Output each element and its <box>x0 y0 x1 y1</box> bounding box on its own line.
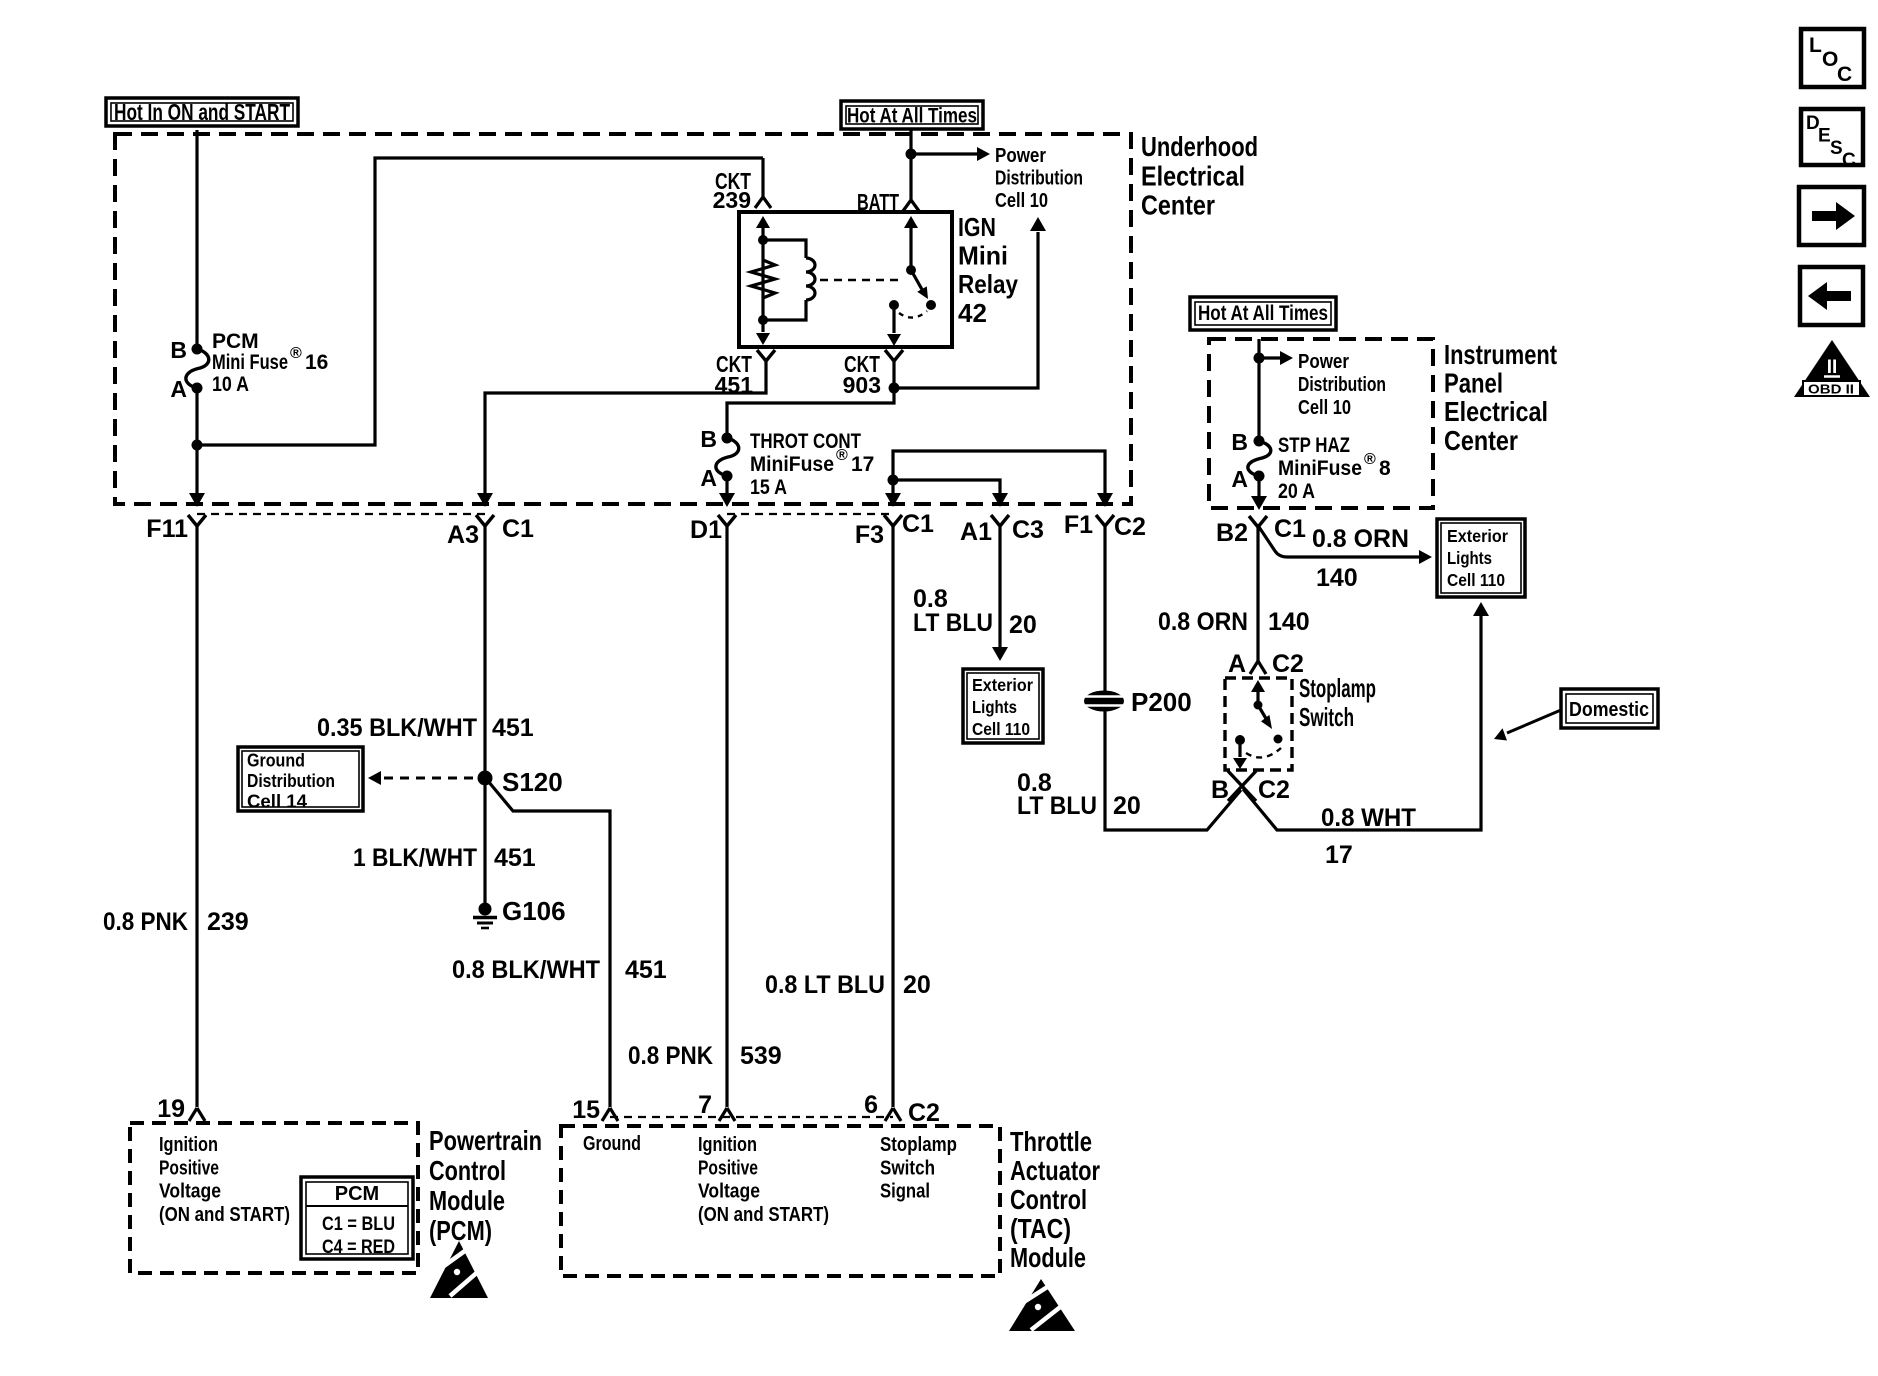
stoplamp internal: travel arc (dashed) <box>1246 748 1281 757</box>
svg-text:Mini Fuse: Mini Fuse <box>212 351 288 374</box>
relay internal: switch blade (arrow) <box>911 270 928 299</box>
svg-text:Instrument: Instrument <box>1444 339 1557 370</box>
svg-text:20 A: 20 A <box>1278 480 1315 503</box>
wire: S120 jog to 0.8 BLK/WHT drop <box>488 781 610 1107</box>
icon OBD II triangle <box>1794 340 1870 397</box>
svg-text:10 A: 10 A <box>212 373 249 396</box>
terminal label B (PCM fuse) <box>170 337 187 363</box>
svg-text:(ON and START): (ON and START) <box>698 1203 829 1226</box>
icon DESC <box>1801 109 1863 171</box>
svg-text:Relay: Relay <box>958 269 1018 299</box>
svg-text:Voltage: Voltage <box>698 1180 760 1203</box>
label "Instrument Panel Electrical Center" <box>1444 339 1557 456</box>
wire label "1 BLK/WHT | 451" <box>353 844 536 872</box>
svg-text:B: B <box>170 337 187 363</box>
svg-text:Positive: Positive <box>159 1156 219 1179</box>
svg-text:®: ® <box>836 447 848 464</box>
svg-text:(TAC): (TAC) <box>1010 1213 1071 1244</box>
switch SW: Stoplamp Switch (dashed box) <box>1225 678 1292 770</box>
pin label "Ignition Positive Voltage (ON and START)" <box>159 1133 290 1226</box>
svg-text:P200: P200 <box>1131 687 1192 717</box>
svg-text:Actuator: Actuator <box>1010 1155 1100 1186</box>
fuse THROT CONT MiniFuse 17 (15A) <box>716 433 739 482</box>
cell box "Exterior Lights Cell 110" (right) <box>1437 519 1525 597</box>
icon forward arrow <box>1799 187 1864 245</box>
svg-text:140: 140 <box>1316 564 1358 592</box>
relay internal: coil-side pin wire <box>756 216 770 320</box>
svg-text:Underhood: Underhood <box>1141 131 1258 162</box>
label "Underhood Electrical Center" <box>1141 131 1258 221</box>
svg-text:Cell 110: Cell 110 <box>972 719 1030 739</box>
wire to A1 with arrow <box>893 480 1008 507</box>
wire label "0.8 LT BLU | 20" (pin 6 drop) <box>765 971 931 999</box>
svg-text:B: B <box>1211 776 1229 804</box>
wire: A3 to S120 (0.35 BLK/WHT 451) <box>483 526 486 773</box>
wire: PCM fuse A down to junction <box>195 388 198 445</box>
svg-text:17: 17 <box>851 453 874 476</box>
svg-text:(PCM): (PCM) <box>429 1215 492 1246</box>
wire: A1 drop to Exterior Lights <box>992 526 1008 661</box>
svg-text:Ground: Ground <box>583 1132 641 1155</box>
relay internal: resistor <box>751 260 775 298</box>
label "Power Distribution Cell 10" (underhood) <box>995 145 1083 212</box>
svg-text:Control: Control <box>1010 1184 1087 1215</box>
svg-text:MiniFuse: MiniFuse <box>750 453 834 476</box>
svg-text:903: 903 <box>843 372 881 398</box>
value label "PCM Mini Fuse 16 10 A" <box>212 330 328 396</box>
svg-text:Module: Module <box>1010 1242 1086 1273</box>
label box "Domestic" <box>1561 689 1658 728</box>
wire label "0.35 BLK/WHT | 451" <box>317 714 534 742</box>
wire label "0.8 BLK/WHT | 451" <box>452 956 667 984</box>
svg-text:Ground: Ground <box>247 751 305 771</box>
relay internal: actuation dashed link <box>820 279 902 282</box>
svg-text:G106: G106 <box>502 896 566 926</box>
svg-text:0.8 PNK: 0.8 PNK <box>103 908 188 936</box>
svg-text:Stoplamp: Stoplamp <box>1299 673 1376 703</box>
svg-text:C1 = BLU: C1 = BLU <box>322 1213 395 1235</box>
svg-text:A: A <box>1228 650 1246 678</box>
label box "Hot At All Times" (underhood) <box>841 101 983 129</box>
connector pin 15 <box>572 1096 618 1124</box>
svg-text:S: S <box>1830 138 1843 159</box>
svg-text:42: 42 <box>958 298 987 328</box>
svg-text:C1: C1 <box>502 515 534 543</box>
svg-text:Cell 10: Cell 10 <box>1298 397 1351 419</box>
cell box "Ground Distribution Cell 14" <box>238 747 363 812</box>
svg-text:Lights: Lights <box>972 697 1017 717</box>
terminal label A (PCM fuse) <box>170 376 187 402</box>
svg-text:LT BLU: LT BLU <box>913 609 993 637</box>
module: Throttle Actuator Control (dashed box) <box>561 1126 1000 1276</box>
connector BATT (relay pin) <box>857 189 919 215</box>
wire: B2 down to stoplamp A (0.8 ORN 140) <box>1256 527 1259 661</box>
wire CKT 451 to A3/C1 <box>477 361 766 507</box>
cell box "Exterior Lights Cell 110" (left) <box>963 669 1043 743</box>
svg-text:0.8 LT BLU: 0.8 LT BLU <box>765 971 885 999</box>
dashed wire to Ground Distribution <box>368 771 478 785</box>
pin label "Ground" <box>583 1132 641 1155</box>
wire+arrow to Power Distribution Cell 10 (underhood) <box>911 147 990 161</box>
svg-text:539: 539 <box>740 1042 782 1070</box>
value label "THROT CONT MiniFuse 17 15 A" <box>750 430 874 499</box>
label box "Hot At All Times" (IP) <box>1190 297 1336 330</box>
svg-text:C2: C2 <box>1114 513 1146 541</box>
svg-text:0.8 WHT: 0.8 WHT <box>1321 804 1416 832</box>
label "Stoplamp Switch" <box>1299 673 1376 732</box>
value label "STP HAZ MiniFuse 8 20 A" <box>1278 434 1391 503</box>
relay internal: coil L1 <box>763 240 815 320</box>
svg-text:1 BLK/WHT: 1 BLK/WHT <box>353 844 477 872</box>
wire CKT 903 to THROT CONT fuse <box>727 388 894 438</box>
svg-text:D1: D1 <box>690 516 722 544</box>
junction (bus split to F3/A1) <box>888 475 899 486</box>
svg-text:0.8 BLK/WHT: 0.8 BLK/WHT <box>452 956 600 984</box>
connector pin 7 <box>698 1091 735 1121</box>
terminal label A (THROT fuse) <box>700 465 717 491</box>
pin label "Stoplamp Switch Signal" <box>880 1133 957 1203</box>
svg-text:C4 = RED: C4 = RED <box>322 1236 395 1258</box>
label "IGN Mini Relay 42" <box>958 212 1018 328</box>
svg-text:Exterior: Exterior <box>1447 526 1508 546</box>
connector A1 / C3 <box>960 515 1044 546</box>
svg-text:C: C <box>1837 63 1852 86</box>
wire: F1 C2 down to P200 <box>1103 526 1106 692</box>
wire label "0.8 WHT / 17" <box>1321 804 1416 869</box>
PCM connector color table <box>301 1177 413 1259</box>
svg-text:E: E <box>1818 126 1831 147</box>
svg-text:(ON and START): (ON and START) <box>159 1203 290 1226</box>
wire label "0.8 / LT BLU | 20" (stoplamp B) <box>1017 769 1141 820</box>
wire+arrow to Power Distribution Cell 10 (IP) <box>1259 351 1293 365</box>
wire: junction down to F11 with arrow <box>189 445 205 507</box>
relay internal: switch travel arc (dashed) <box>899 311 927 318</box>
connector B / C2 (stoplamp out) <box>1211 771 1290 804</box>
svg-text:B: B <box>1231 429 1248 455</box>
connector A / C2 (stoplamp) <box>1228 650 1304 678</box>
svg-text:MiniFuse: MiniFuse <box>1278 457 1362 480</box>
connector line D1-F3 (fine dashed) <box>727 513 893 515</box>
relay internal: switch common (from BATT) <box>904 216 918 275</box>
wire label "0.8 ORN / 140" <box>1312 525 1409 592</box>
Instrument Panel Electrical Center enclosure (dashed) <box>1209 339 1433 508</box>
svg-text:PCM: PCM <box>335 1183 379 1205</box>
svg-text:L: L <box>1809 34 1822 57</box>
svg-text:140: 140 <box>1268 608 1310 636</box>
svg-text:6: 6 <box>864 1091 878 1119</box>
connector D1 <box>690 515 736 544</box>
svg-text:F11: F11 <box>146 515 188 543</box>
ground G106 <box>473 896 566 928</box>
svg-text:20: 20 <box>1113 792 1141 820</box>
connector F3 / C1 <box>855 510 934 549</box>
svg-text:19: 19 <box>157 1095 185 1123</box>
svg-text:7: 7 <box>698 1091 712 1119</box>
svg-text:Distribution: Distribution <box>1298 374 1386 396</box>
connector line 15-7-6 (fine dashed) <box>610 1116 893 1118</box>
junction (fuse output) <box>192 440 203 451</box>
relay internal junction (coil bottom) <box>758 315 768 325</box>
label "Power Distribution Cell 10" (IP) <box>1298 351 1386 419</box>
relay U: IGN Mini Relay 42 box <box>739 212 952 347</box>
svg-text:Mini: Mini <box>958 241 1008 271</box>
junction (BATT feed) <box>906 149 917 160</box>
svg-text:239: 239 <box>207 908 249 936</box>
relay internal: arrow to CKT 451 pin <box>756 320 770 345</box>
svg-text:Panel: Panel <box>1444 368 1503 399</box>
svg-text:F1: F1 <box>1064 511 1093 539</box>
svg-text:Switch: Switch <box>1299 702 1354 732</box>
svg-text:O: O <box>1822 48 1838 71</box>
svg-text:Control: Control <box>429 1155 506 1186</box>
svg-text:0.8 PNK: 0.8 PNK <box>628 1042 713 1070</box>
connector pin 19 <box>157 1095 205 1123</box>
svg-text:C: C <box>1842 150 1856 171</box>
svg-text:8: 8 <box>1379 457 1391 480</box>
svg-text:Center: Center <box>1141 190 1215 221</box>
wire fuse A to D1 with arrow <box>719 476 735 507</box>
svg-text:A1: A1 <box>960 518 992 546</box>
svg-text:C2: C2 <box>908 1099 940 1127</box>
wire label "0.8 / LT BLU | 20" (A1 drop) <box>913 585 1037 639</box>
terminal label B (STP HAZ fuse) <box>1231 429 1248 455</box>
label "Powertrain Control Module (PCM)" <box>429 1125 542 1246</box>
fuse STP HAZ MiniFuse 8 (20A) <box>1248 436 1271 482</box>
svg-text:F3: F3 <box>855 521 884 549</box>
wire: feed down to CKT 239 pin <box>761 158 764 197</box>
Underhood Electrical Center enclosure (dashed) <box>115 134 1131 504</box>
svg-text:451: 451 <box>494 844 536 872</box>
connector pin 6 / C2 <box>864 1091 940 1127</box>
svg-text:Ignition: Ignition <box>698 1133 757 1156</box>
svg-text:A3: A3 <box>447 521 479 549</box>
stoplamp internal: blade arrow <box>1258 705 1272 729</box>
wire CKT 903 down to junction <box>892 361 895 388</box>
wire: P200 down/right to stoplamp B (0.8 LT BLU 20) <box>1105 711 1241 830</box>
svg-text:0.8 ORN: 0.8 ORN <box>1158 608 1248 636</box>
svg-text:0.8 ORN: 0.8 ORN <box>1312 525 1409 553</box>
wire+arrow up to Power Distribution Cell 10 <box>894 217 1046 388</box>
svg-text:B: B <box>700 426 717 452</box>
wire+arrow into F1 C2 <box>1097 493 1113 507</box>
label P200 <box>1131 687 1192 717</box>
svg-text:®: ® <box>1364 451 1376 468</box>
svg-text:II: II <box>1827 357 1838 378</box>
icon LOC <box>1801 29 1864 87</box>
svg-text:Stoplamp: Stoplamp <box>880 1133 957 1156</box>
wire: S120 to G106 (1 BLK/WHT 451) <box>483 783 486 903</box>
stoplamp internal: input arrow <box>1251 680 1265 705</box>
svg-text:Center: Center <box>1444 425 1518 456</box>
svg-text:A: A <box>700 465 717 491</box>
wire: Hot In ON/START feed down to PCM fuse <box>195 130 198 349</box>
connector A3 / C1 <box>447 515 534 549</box>
wire label "0.8 PNK | 539" <box>628 1042 782 1070</box>
ESD symbol (TAC) <box>1009 1279 1075 1331</box>
wire: junction right and up to CKT 239 feed <box>197 158 763 445</box>
svg-text:Domestic: Domestic <box>1569 699 1649 721</box>
wire: IP feed down <box>1257 339 1260 441</box>
svg-text:15: 15 <box>572 1096 600 1124</box>
wire label "0.8 ORN | 140" (vertical drop) <box>1158 608 1310 636</box>
svg-text:451: 451 <box>625 956 667 984</box>
svg-text:Positive: Positive <box>698 1156 758 1179</box>
wire: stoplamp signal bus <box>893 451 1105 493</box>
stoplamp internal: NO contact <box>1274 735 1283 744</box>
svg-text:0.35 BLK/WHT: 0.35 BLK/WHT <box>317 714 477 742</box>
svg-text:Power: Power <box>995 145 1046 167</box>
connector line F11-A3 (fine dashed) <box>197 513 485 515</box>
svg-text:16: 16 <box>305 351 328 374</box>
svg-text:A: A <box>170 376 187 402</box>
svg-text:20: 20 <box>903 971 931 999</box>
stoplamp internal: common contact <box>1254 701 1263 710</box>
svg-text:PCM: PCM <box>212 330 259 353</box>
svg-text:Lights: Lights <box>1447 548 1492 568</box>
svg-text:Signal: Signal <box>880 1180 930 1203</box>
svg-text:Hot At All Times: Hot At All Times <box>1198 302 1328 325</box>
relay internal: NC contact <box>926 300 936 310</box>
svg-text:Cell 10: Cell 10 <box>995 190 1048 212</box>
relay internal: output contact + arrow to CKT 903 <box>887 300 901 346</box>
connector B2 / C1 <box>1216 515 1306 547</box>
svg-text:S120: S120 <box>502 767 563 797</box>
wire: F3 to TAC pin 6 (0.8 LT BLU 20) <box>891 526 894 1107</box>
grommet P200 <box>1081 691 1127 712</box>
label "Throttle Actuator Control (TAC) Module" <box>1010 1126 1100 1273</box>
wire fuse A to B2 with arrow <box>1251 476 1267 510</box>
terminal label B (THROT fuse) <box>700 426 717 452</box>
svg-text:Electrical: Electrical <box>1444 396 1548 427</box>
svg-text:Exterior: Exterior <box>972 675 1033 695</box>
icon back arrow <box>1800 267 1863 325</box>
module: Powertrain Control Module (dashed box) <box>130 1123 418 1273</box>
pin label "Ignition Positive Voltage (ON and START)" (TAC) <box>698 1133 829 1226</box>
svg-text:Voltage: Voltage <box>159 1180 221 1203</box>
svg-text:LT BLU: LT BLU <box>1017 792 1097 820</box>
svg-text:20: 20 <box>1009 611 1037 639</box>
svg-text:451: 451 <box>492 714 534 742</box>
relay internal junction (coil top) <box>758 235 768 245</box>
svg-text:Cell 14: Cell 14 <box>247 792 307 812</box>
svg-text:17: 17 <box>1325 841 1353 869</box>
svg-text:B2: B2 <box>1216 519 1248 547</box>
wire label "0.8 PNK | 239" <box>103 908 249 936</box>
wire branch to Exterior Lights (0.8 ORN 140) <box>1259 527 1432 564</box>
svg-text:®: ® <box>290 345 302 362</box>
svg-text:Switch: Switch <box>880 1156 935 1179</box>
svg-text:Cell 110: Cell 110 <box>1447 570 1505 590</box>
svg-text:Distribution: Distribution <box>995 168 1083 190</box>
svg-text:Module: Module <box>429 1185 505 1216</box>
svg-text:Throttle: Throttle <box>1010 1126 1092 1157</box>
connector F1 / C2 <box>1064 511 1146 541</box>
svg-text:Hot At All Times: Hot At All Times <box>847 105 977 128</box>
wire+arrow into F3 <box>885 480 901 507</box>
svg-text:Distribution: Distribution <box>247 771 335 791</box>
svg-text:239: 239 <box>713 187 751 213</box>
svg-text:OBD II: OBD II <box>1808 382 1854 397</box>
svg-text:Hot In ON and START: Hot In ON and START <box>114 99 290 125</box>
svg-text:Powertrain: Powertrain <box>429 1125 542 1156</box>
ESD symbol (PCM) <box>430 1241 488 1298</box>
wire: stoplamp B to Exterior Lights (0.8 WHT 17) <box>1243 602 1489 830</box>
junction (IP feed) <box>1254 353 1265 364</box>
connector CKT 903 (relay pin) <box>843 350 903 398</box>
stoplamp internal: output contact + arrow <box>1233 735 1247 769</box>
wire: D1 to TAC pin 7 (0.8 PNK 539) <box>725 526 728 1107</box>
splice S120 <box>478 767 563 797</box>
svg-text:Power: Power <box>1298 351 1349 373</box>
connector F11 <box>146 515 206 543</box>
label box "Hot In ON and START" <box>106 98 298 126</box>
svg-text:C1: C1 <box>902 510 934 538</box>
svg-text:IGN: IGN <box>958 212 996 242</box>
svg-text:A: A <box>1231 466 1248 492</box>
terminal label A (STP HAZ fuse) <box>1231 466 1248 492</box>
svg-text:15 A: 15 A <box>750 476 787 499</box>
junction (CKT 903 split) <box>889 383 900 394</box>
connector CKT 451 (relay pin) <box>715 350 775 398</box>
pointer arrow (Domestic) <box>1494 710 1561 741</box>
svg-text:Ignition: Ignition <box>159 1133 218 1156</box>
svg-text:C1: C1 <box>1274 515 1306 543</box>
svg-text:Electrical: Electrical <box>1141 160 1245 191</box>
svg-text:STP HAZ: STP HAZ <box>1278 434 1350 457</box>
fuse PCM Mini Fuse 16 (10A) <box>186 344 209 394</box>
svg-text:C3: C3 <box>1012 516 1044 544</box>
wire: F11 to PCM pin 19 (0.8 PNK 239) <box>195 526 198 1107</box>
svg-text:C2: C2 <box>1258 776 1290 804</box>
wire: Hot At All Times down to BATT <box>909 129 912 200</box>
connector CKT 239 (relay pin) <box>713 168 771 213</box>
